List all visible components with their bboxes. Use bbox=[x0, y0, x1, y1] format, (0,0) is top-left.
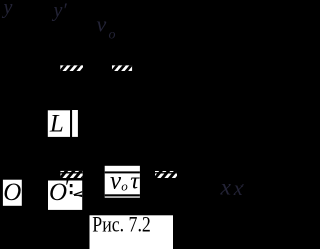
L label box bbox=[48, 110, 70, 137]
box bottom border bbox=[105, 194, 140, 196]
svg-text:v: v bbox=[97, 12, 107, 37]
svg-text:x: x bbox=[220, 175, 232, 201]
dashed y' axis dots over O' box bbox=[70, 184, 73, 194]
v0·tau label box bbox=[105, 166, 141, 198]
origin label O' on white box bbox=[48, 174, 82, 210]
svg-text:L: L bbox=[49, 111, 64, 138]
caption panel bbox=[90, 213, 174, 249]
hatched block 4 bbox=[152, 168, 185, 181]
dimension arrowhead pointing left over O' box bbox=[73, 191, 83, 197]
hatched block 1: white hatch gaps bbox=[59, 62, 90, 74]
svg-text:o: o bbox=[109, 28, 116, 43]
x axis line crossing hatch 4 bbox=[155, 172, 177, 173]
svg-text:y′: y′ bbox=[52, 0, 68, 22]
background (transparent in source file, stored RGB = black) bbox=[0, 0, 253, 249]
svg-text:′: ′ bbox=[241, 180, 244, 195]
hatched block 3 bbox=[58, 168, 91, 181]
origin label O on white box bbox=[3, 179, 22, 206]
x axis line crossing hatch 3 bbox=[60, 172, 83, 173]
svg-text:O: O bbox=[3, 179, 21, 206]
box top border merged with x axis line bbox=[105, 171, 140, 173]
vertical line and white bar beside L box bbox=[70, 110, 78, 137]
svg-text:Рис. 7.2: Рис. 7.2 bbox=[92, 213, 151, 237]
velocity label v0 (anti-alias ghost) bbox=[97, 12, 116, 43]
svg-text:τ: τ bbox=[130, 168, 140, 195]
hatched block 2: white hatch gaps bbox=[110, 62, 141, 74]
svg-text:v: v bbox=[110, 168, 122, 195]
svg-text:o: o bbox=[121, 179, 128, 194]
svg-text:y: y bbox=[2, 0, 13, 19]
